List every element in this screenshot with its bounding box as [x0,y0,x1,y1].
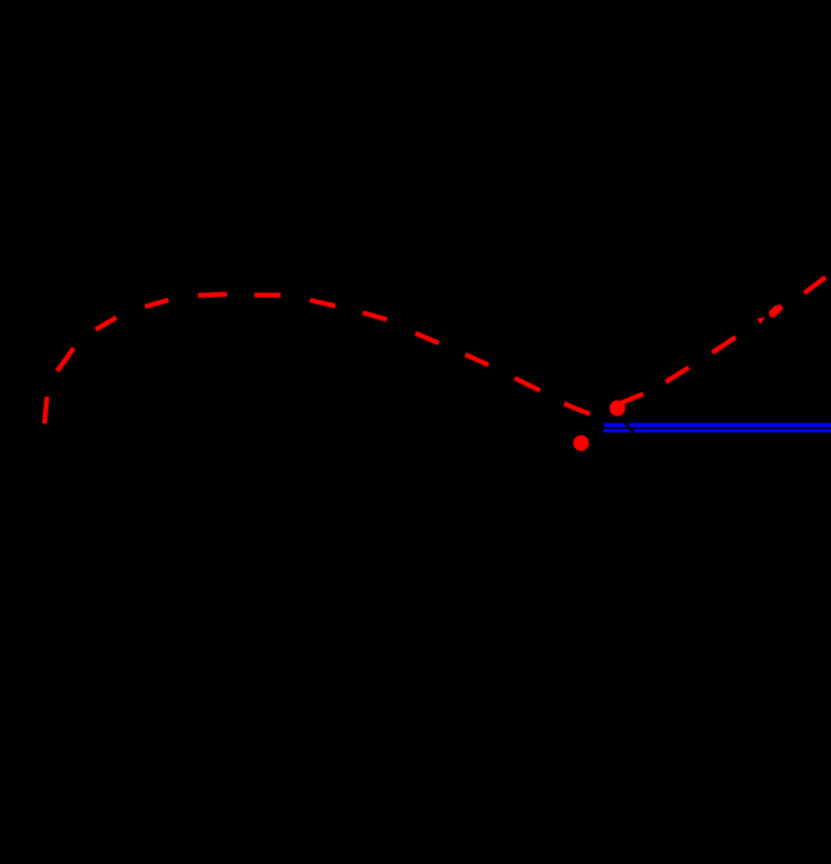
red equilibrium dot 2 (lower) [573,435,589,451]
red dashed curve A (left arc) [45,294,591,423]
black solid line crossing the blue lines [611,407,641,440]
red arrow head on line B [769,305,784,318]
red equilibrium dot 1 (on line B) [610,400,626,416]
red arrow tail barb on line B [757,317,765,324]
red dashed line B (rising to upper right) [619,277,826,404]
blue double trajectory line (lower) [603,429,831,432]
blue double trajectory line (upper) [604,423,831,427]
